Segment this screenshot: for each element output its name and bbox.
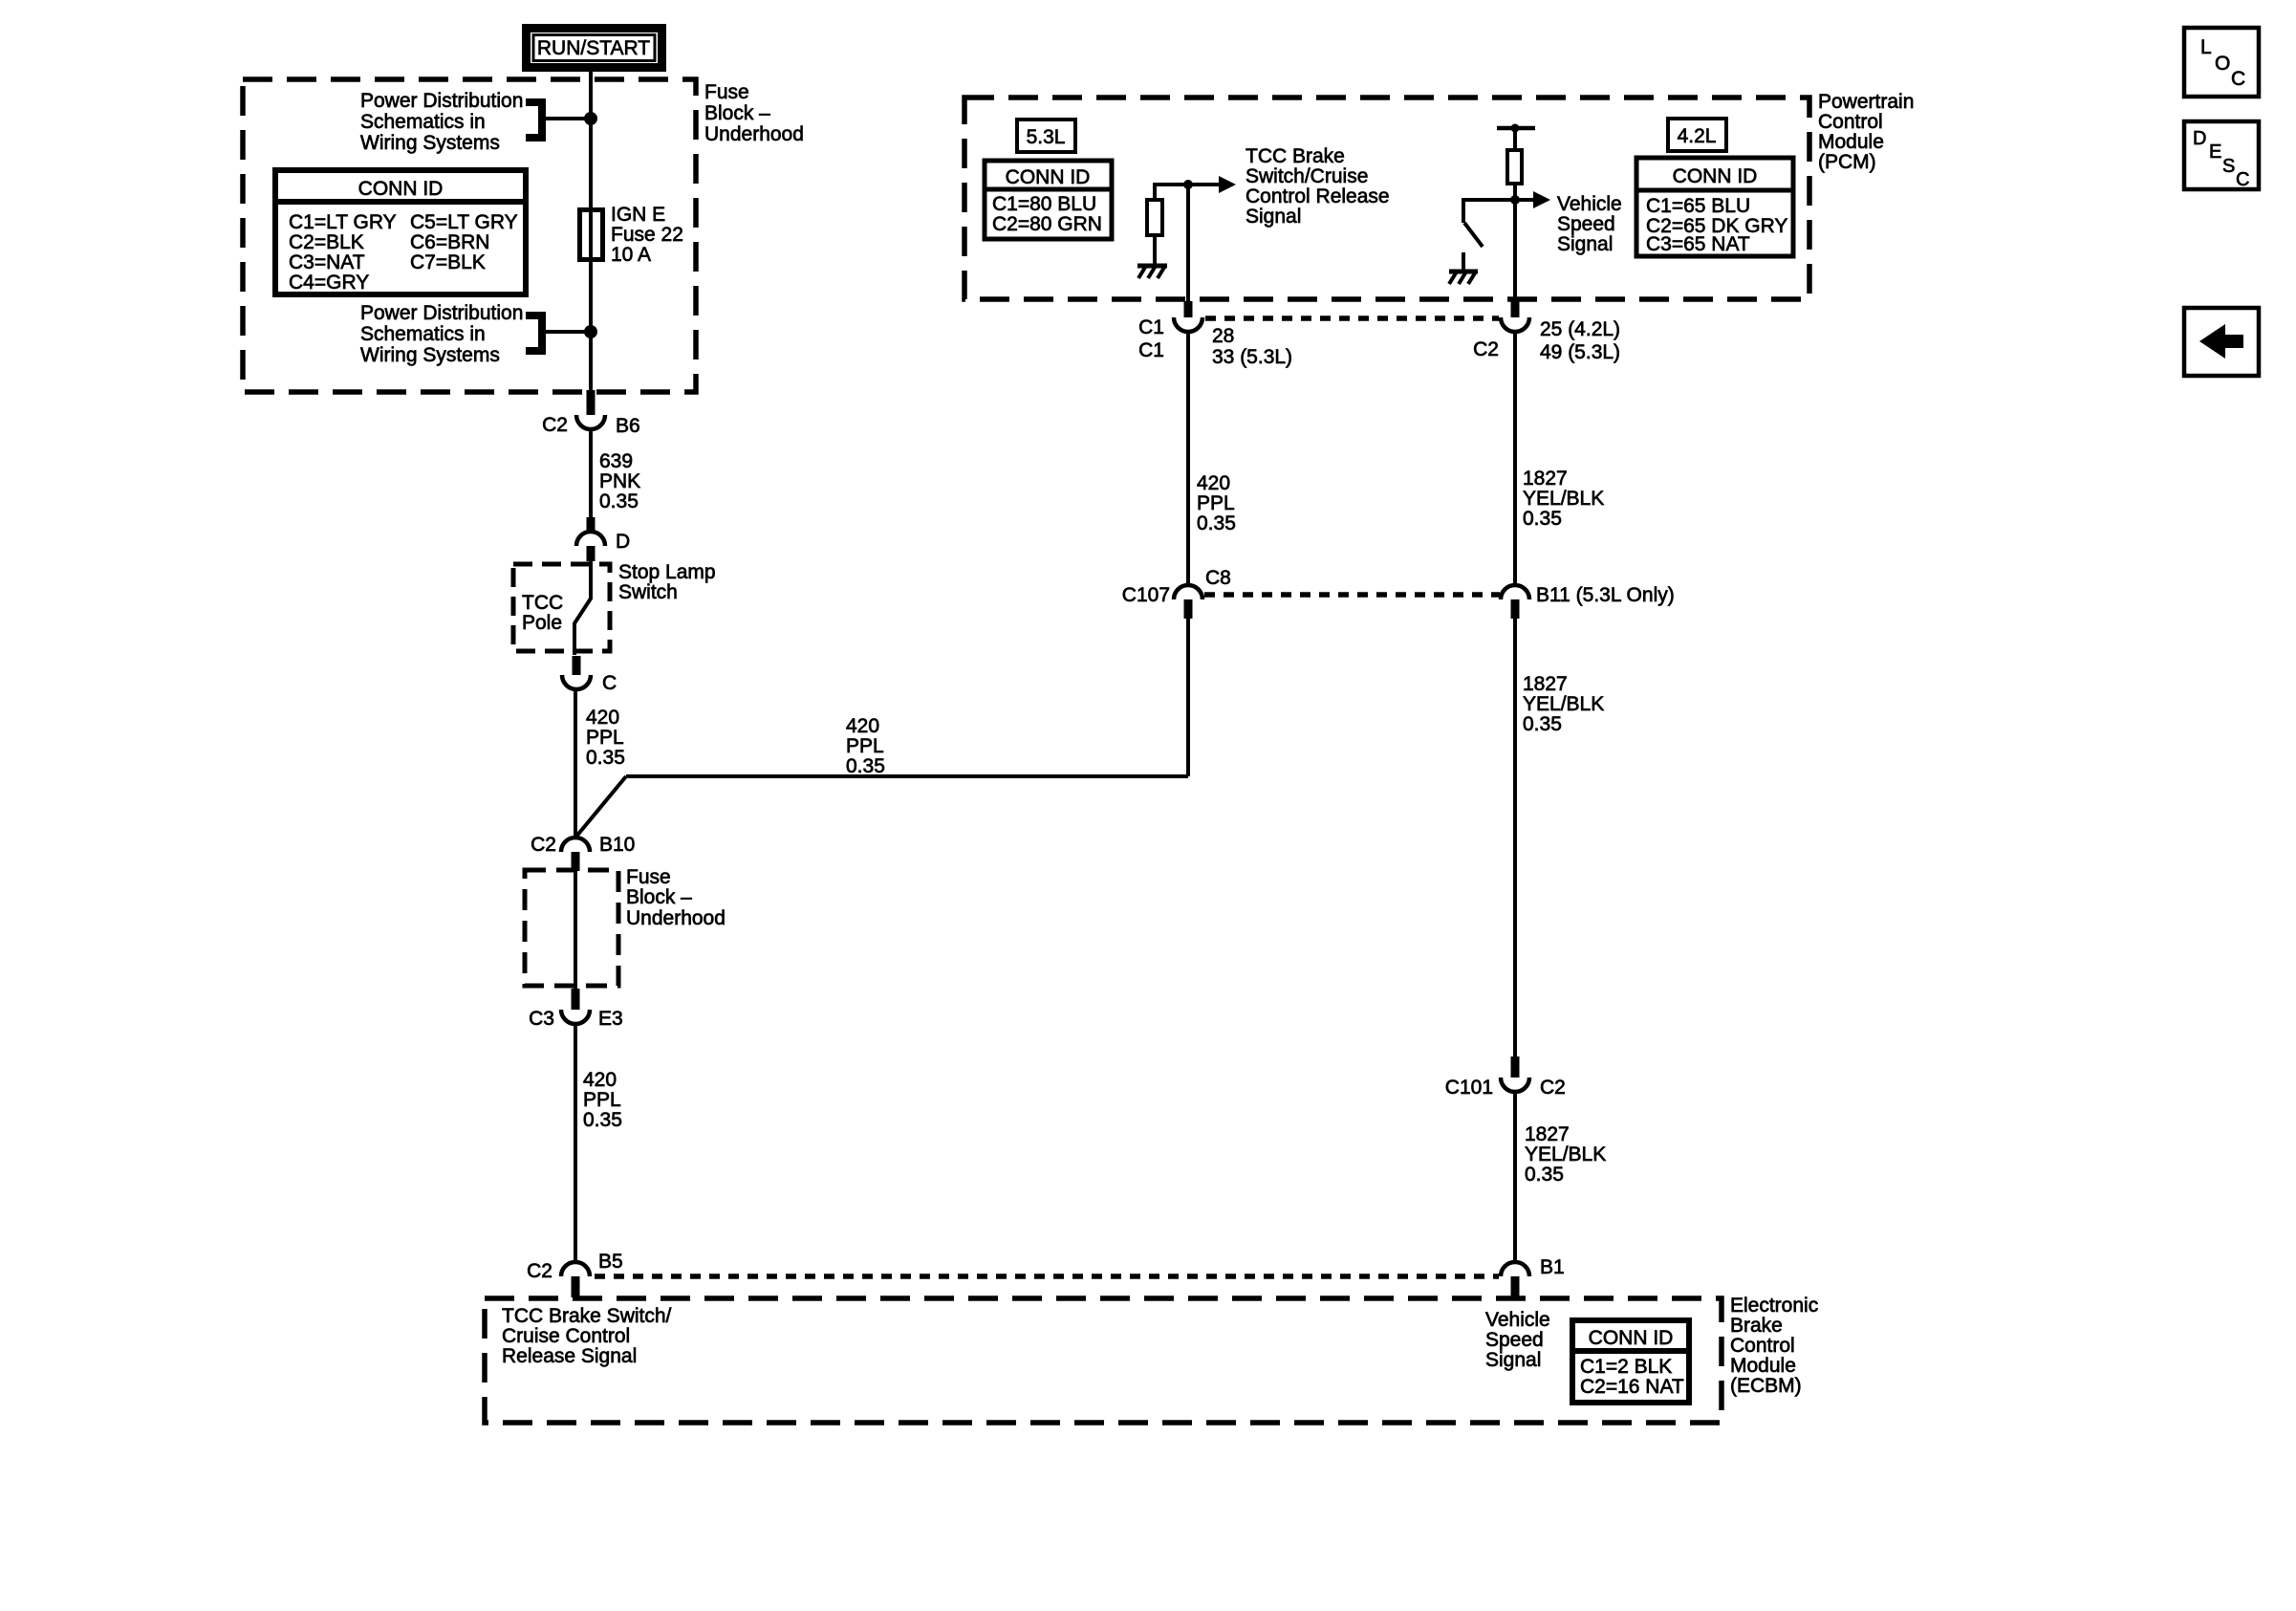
svg-text:Signal: Signal — [1245, 206, 1301, 228]
svg-text:D: D — [616, 531, 630, 553]
junction dot lower — [584, 325, 597, 338]
svg-text:C1: C1 — [1138, 339, 1164, 361]
svg-text:4.2L: 4.2L — [1678, 125, 1717, 147]
svg-text:Vehicle: Vehicle — [1557, 193, 1622, 215]
svg-text:C2=BLK: C2=BLK — [289, 231, 364, 253]
svg-text:Power Distribution: Power Distribution — [360, 302, 523, 324]
connector C2/B5 — [561, 1262, 590, 1297]
svg-text:C8: C8 — [1205, 567, 1231, 589]
wire label 639 PNK 0.35 — [599, 450, 640, 512]
component box Fuse Block Underhood (small) — [525, 870, 618, 986]
component box Stop Lamp Switch / TCC Pole — [513, 564, 610, 651]
tag box 4.2L — [1668, 119, 1726, 151]
wire C2 to B11 — [1513, 332, 1517, 585]
svg-text:Schematics in: Schematics in — [360, 323, 486, 345]
svg-text:C2: C2 — [527, 1260, 552, 1282]
svg-text:Power Distribution: Power Distribution — [360, 90, 523, 112]
connector C — [562, 656, 591, 689]
wire C1 to C107 — [1186, 332, 1190, 585]
svg-text:C2: C2 — [531, 834, 556, 856]
svg-text:C2: C2 — [1473, 338, 1499, 360]
ground PCM right — [1449, 272, 1478, 284]
svg-text:C5=LT GRY: C5=LT GRY — [410, 211, 518, 233]
svg-text:1827: 1827 — [1525, 1123, 1570, 1145]
switch blade stop lamp switch — [574, 561, 591, 655]
svg-text:C2: C2 — [542, 414, 568, 436]
svg-text:C1=2 BLK: C1=2 BLK — [1580, 1356, 1672, 1378]
wire B6 to D — [589, 429, 593, 532]
wire C8 down to horizontal — [1186, 619, 1190, 776]
svg-text:Wiring Systems: Wiring Systems — [360, 132, 500, 154]
svg-text:420: 420 — [846, 715, 879, 737]
svg-text:CONN ID: CONN ID — [1006, 166, 1091, 188]
svg-text:420: 420 — [583, 1069, 617, 1091]
ground PCM left — [1137, 266, 1167, 278]
conn id table fuse block — [275, 170, 526, 294]
svg-text:Switch: Switch — [618, 581, 678, 603]
svg-text:Stop Lamp: Stop Lamp — [618, 561, 716, 583]
connector C101/C2 — [1501, 1056, 1529, 1092]
svg-text:Control: Control — [1730, 1335, 1795, 1357]
svg-text:C3=NAT: C3=NAT — [289, 251, 365, 273]
svg-text:Pole: Pole — [522, 612, 562, 634]
svg-text:Vehicle: Vehicle — [1485, 1309, 1550, 1331]
svg-text:C: C — [2231, 68, 2245, 90]
wire label 420 PPL 0.35 (left) — [586, 707, 625, 769]
switch vehicle speed — [1463, 200, 1515, 272]
svg-text:C3=65 NAT: C3=65 NAT — [1646, 233, 1750, 255]
conn id table PCM 5.3L — [985, 161, 1112, 239]
svg-text:C1=65 BLU: C1=65 BLU — [1646, 195, 1750, 217]
svg-text:420: 420 — [586, 707, 619, 729]
svg-text:B6: B6 — [616, 415, 640, 437]
wire RUN/START to fuse to B6 — [589, 72, 593, 390]
wire label 420 PPL 0.35 (lower) — [583, 1069, 622, 1131]
resistor PCM left — [1147, 200, 1162, 235]
component box ECBM — [485, 1298, 1722, 1423]
svg-text:Signal: Signal — [1485, 1349, 1541, 1371]
resistor PCM right — [1507, 150, 1522, 184]
svg-text:0.35: 0.35 — [1523, 508, 1562, 530]
svg-text:C: C — [2236, 169, 2249, 190]
interconnect dashed B5 to B1 — [595, 1274, 1499, 1279]
power rail box RUN/START — [527, 29, 662, 68]
T-bar vehicle speed supply — [1497, 124, 1535, 133]
nav box back arrow — [2184, 308, 2259, 376]
connector D — [576, 517, 605, 561]
svg-text:(ECBM): (ECBM) — [1730, 1375, 1802, 1397]
wire horizontal 420 PPL — [626, 774, 1188, 778]
fuse IGN E Fuse 22 10A — [580, 210, 603, 260]
svg-text:Speed: Speed — [1557, 213, 1615, 235]
svg-text:420: 420 — [1197, 472, 1230, 494]
label Vehicle Speed Signal (ECBM) — [1485, 1309, 1550, 1371]
svg-text:Block –: Block – — [626, 886, 692, 908]
svg-text:28: 28 — [1212, 325, 1234, 347]
svg-text:CONN ID: CONN ID — [358, 178, 444, 200]
connector B11 — [1501, 585, 1529, 619]
svg-text:YEL/BLK: YEL/BLK — [1525, 1143, 1606, 1165]
conn id table PCM 4.2L — [1636, 158, 1793, 256]
svg-text:B5: B5 — [598, 1251, 623, 1273]
svg-text:TCC Brake Switch/: TCC Brake Switch/ — [502, 1305, 672, 1327]
svg-text:PPL: PPL — [583, 1089, 621, 1111]
svg-text:C2=80 GRN: C2=80 GRN — [992, 213, 1102, 235]
svg-text:CONN ID: CONN ID — [1673, 165, 1758, 187]
svg-text:Release Signal: Release Signal — [502, 1345, 637, 1367]
wire resistor top elbow — [1155, 185, 1188, 198]
svg-text:0.35: 0.35 — [586, 747, 625, 769]
svg-text:33 (5.3L): 33 (5.3L) — [1212, 346, 1292, 368]
bracket to Power Distribution (upper) — [526, 102, 591, 138]
svg-text:Underhood: Underhood — [704, 123, 804, 145]
svg-text:S: S — [2222, 156, 2235, 177]
svg-text:O: O — [2215, 53, 2230, 75]
svg-text:D: D — [2193, 128, 2206, 149]
wire label 1827 YEL/BLK 0.35 (upper) — [1523, 468, 1604, 530]
svg-text:Fuse: Fuse — [626, 866, 671, 888]
svg-text:49 (5.3L): 49 (5.3L) — [1540, 341, 1620, 363]
label TCC Brake Switch / Cruise Control Release Signal — [502, 1305, 672, 1367]
svg-text:C4=GRY: C4=GRY — [289, 272, 369, 294]
label Vehicle Speed Signal (PCM) — [1557, 193, 1622, 255]
svg-text:C1: C1 — [1138, 316, 1164, 338]
wire label 420 PPL 0.35 (PCM drop) — [1197, 472, 1236, 534]
svg-text:25 (4.2L): 25 (4.2L) — [1540, 318, 1620, 340]
svg-text:C2: C2 — [1540, 1077, 1566, 1099]
svg-text:Brake: Brake — [1730, 1315, 1783, 1337]
svg-text:TCC Brake: TCC Brake — [1245, 145, 1345, 167]
svg-text:Module: Module — [1818, 131, 1884, 153]
junction dot PCM left — [1183, 180, 1193, 189]
svg-text:Wiring Systems: Wiring Systems — [360, 344, 500, 366]
svg-text:Control: Control — [1818, 111, 1883, 133]
svg-text:C2=16 NAT: C2=16 NAT — [1580, 1376, 1684, 1398]
node label Power Distribution (upper) — [360, 90, 523, 154]
svg-text:PPL: PPL — [1197, 492, 1235, 514]
label TCC Brake Switch Cruise Control Release Signal — [1245, 145, 1390, 228]
wire PCM C1 down — [1186, 185, 1190, 301]
wire label 1827 YEL/BLK 0.35 (middle) — [1523, 673, 1604, 735]
svg-text:PPL: PPL — [846, 735, 884, 757]
svg-text:0.35: 0.35 — [583, 1109, 622, 1131]
svg-text:0.35: 0.35 — [1525, 1164, 1564, 1186]
svg-text:Fuse 22: Fuse 22 — [611, 224, 683, 246]
svg-text:Control Release: Control Release — [1245, 185, 1390, 207]
svg-text:C1=LT GRY: C1=LT GRY — [289, 211, 397, 233]
wire resistor bottom — [1153, 237, 1157, 265]
svg-text:C7=BLK: C7=BLK — [410, 251, 486, 273]
connector C3/E3 — [561, 989, 590, 1024]
component box Fuse Block Underhood (top) — [243, 79, 696, 392]
tag box 5.3L — [1017, 120, 1075, 152]
svg-text:Powertrain: Powertrain — [1818, 91, 1914, 113]
svg-text:Module: Module — [1730, 1355, 1796, 1377]
svg-text:L: L — [2200, 36, 2212, 58]
junction dot PCM right — [1510, 195, 1520, 205]
wire arrow vehicle speed — [1515, 198, 1535, 202]
svg-text:1827: 1827 — [1523, 673, 1568, 695]
wire C101 to B1 — [1513, 1092, 1517, 1262]
connector C2/B10 — [561, 838, 590, 871]
svg-text:C107: C107 — [1122, 584, 1170, 606]
wire T-bar to resistor — [1513, 128, 1517, 150]
interconnect dashed C1 to C2 — [1205, 316, 1499, 321]
svg-text:PPL: PPL — [586, 727, 624, 749]
svg-text:Schematics in: Schematics in — [360, 111, 486, 133]
node label Power Distribution (lower) — [360, 302, 523, 366]
svg-text:CONN ID: CONN ID — [1589, 1327, 1674, 1349]
svg-text:1827: 1827 — [1523, 468, 1568, 490]
wire resistor to C2 — [1513, 184, 1517, 301]
wire label 1827 YEL/BLK 0.35 (lower) — [1525, 1123, 1606, 1186]
connector C2/B6 — [576, 390, 605, 429]
svg-text:C3: C3 — [529, 1008, 554, 1030]
connector C107/C8 — [1174, 585, 1202, 619]
wire diagonal branch — [575, 776, 626, 838]
svg-text:Block –: Block – — [704, 102, 770, 124]
wire C to B10 — [574, 689, 577, 838]
wire E3 to B5 — [574, 1024, 577, 1262]
wire B11 to C101 — [1513, 619, 1517, 1056]
svg-text:5.3L: 5.3L — [1027, 126, 1066, 148]
svg-text:639: 639 — [599, 450, 633, 472]
svg-text:YEL/BLK: YEL/BLK — [1523, 693, 1604, 715]
wire inside fuse block — [574, 871, 577, 989]
svg-text:Switch/Cruise: Switch/Cruise — [1245, 165, 1368, 187]
svg-text:Fuse: Fuse — [704, 81, 749, 103]
svg-text:C101: C101 — [1445, 1077, 1493, 1099]
svg-text:TCC: TCC — [522, 592, 563, 614]
svg-text:Speed: Speed — [1485, 1329, 1544, 1351]
svg-text:C: C — [602, 672, 617, 694]
nav box DESC — [2184, 121, 2259, 190]
svg-text:Underhood: Underhood — [626, 907, 726, 929]
interconnect dashed C8 to B11 — [1204, 592, 1500, 598]
svg-text:RUN/START: RUN/START — [537, 37, 650, 59]
svg-text:0.35: 0.35 — [599, 490, 639, 512]
svg-text:0.35: 0.35 — [846, 755, 885, 777]
svg-text:C6=BRN: C6=BRN — [410, 231, 489, 253]
svg-text:Signal: Signal — [1557, 233, 1613, 255]
arrowhead vehicle speed — [1533, 191, 1550, 208]
connector C1 (PCM) — [1174, 301, 1202, 332]
svg-text:B1: B1 — [1540, 1256, 1565, 1278]
svg-text:PNK: PNK — [599, 470, 640, 492]
label Electronic Brake Control Module ECBM — [1730, 1295, 1818, 1397]
wire label 420 PPL 0.35 (middle) — [846, 715, 885, 777]
component box PCM — [964, 98, 1809, 299]
wire arrow TCC brake — [1188, 183, 1221, 186]
conn id table ECBM — [1572, 1320, 1689, 1403]
svg-text:B11 (5.3L Only): B11 (5.3L Only) — [1536, 584, 1675, 606]
nav box LOC — [2184, 28, 2259, 97]
svg-text:E3: E3 — [598, 1008, 623, 1030]
arrowhead TCC brake — [1219, 176, 1236, 193]
svg-text:0.35: 0.35 — [1523, 713, 1562, 735]
label Powertrain Control Module PCM — [1818, 91, 1914, 173]
svg-text:Electronic: Electronic — [1730, 1295, 1818, 1317]
svg-text:10 A: 10 A — [611, 244, 651, 266]
svg-text:Cruise Control: Cruise Control — [502, 1325, 630, 1347]
value label IGN E Fuse 22 10 A — [611, 204, 683, 266]
svg-text:YEL/BLK: YEL/BLK — [1523, 488, 1604, 510]
svg-text:IGN E: IGN E — [611, 204, 665, 226]
junction dot upper — [584, 112, 597, 125]
svg-text:C1=80 BLU: C1=80 BLU — [992, 193, 1096, 215]
bracket to Power Distribution (lower) — [526, 316, 591, 351]
svg-text:B10: B10 — [599, 834, 635, 856]
svg-text:(PCM): (PCM) — [1818, 151, 1876, 173]
connector B1 — [1501, 1262, 1529, 1297]
svg-text:E: E — [2209, 142, 2221, 163]
connector C2 (PCM) — [1501, 301, 1529, 332]
svg-text:0.35: 0.35 — [1197, 512, 1236, 534]
